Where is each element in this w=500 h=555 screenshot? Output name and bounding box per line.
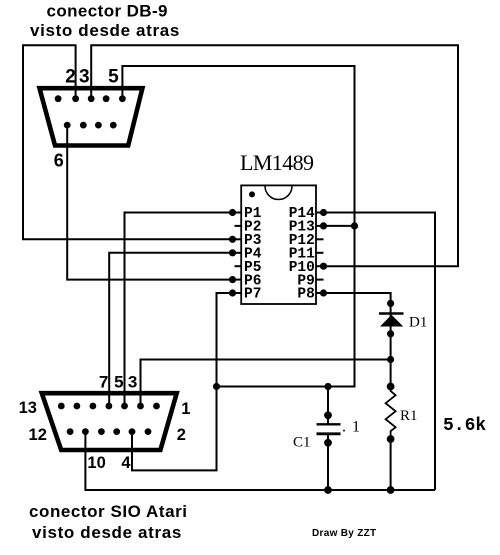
- diode D1 branch vertical: [390, 314, 392, 390]
- capacitor C1 plates: [317, 424, 341, 434]
- svg-text:C1: C1: [293, 435, 311, 451]
- svg-text:10: 10: [87, 454, 105, 472]
- svg-text:6: 6: [54, 151, 64, 171]
- title SIO connector label: [29, 502, 188, 542]
- svg-text:7: 7: [99, 373, 108, 392]
- svg-text:2: 2: [65, 67, 76, 88]
- wire DB9-5 to P13/C1 node: [122, 66, 354, 387]
- diode node dots: [387, 300, 394, 363]
- wire P14 to rail: [324, 213, 436, 491]
- wire DB9-3 to P10: [91, 45, 458, 266]
- svg-text:2: 2: [177, 426, 186, 444]
- svg-text:visto desde atras: visto desde atras: [32, 523, 182, 542]
- IC notch: [265, 186, 292, 200]
- IC right pin dots: [320, 209, 327, 297]
- DB-9 pins row2: [64, 122, 117, 129]
- SIO pins row1: [58, 403, 160, 410]
- svg-text:conector DB-9: conector DB-9: [47, 2, 168, 21]
- svg-text:D1: D1: [409, 315, 427, 331]
- junction node P7/C1: [213, 383, 220, 390]
- resistor R1 zigzag: [386, 387, 396, 440]
- connector J2 SIO body: [42, 393, 177, 450]
- svg-text:5: 5: [108, 67, 119, 88]
- IC right pin stubs: [316, 213, 324, 294]
- junction P13 node: [351, 222, 358, 229]
- wire R1 to rail: [390, 439, 392, 490]
- capacitor C1 branch top: [327, 387, 329, 425]
- DB-9 pins row1: [55, 95, 126, 102]
- wire SIO-10 ground rail: [85, 432, 435, 490]
- rail dot at R1: [387, 486, 395, 494]
- capacitor C1 branch bottom: [327, 434, 329, 490]
- svg-text:P7: P7: [244, 287, 261, 303]
- wire DB9-6 to P6: [67, 125, 232, 280]
- svg-text:Draw By ZZT: Draw By ZZT: [312, 528, 376, 539]
- svg-text:12: 12: [29, 426, 47, 444]
- svg-text:5.6k: 5.6k: [443, 416, 486, 436]
- wire P1 to SIO-5: [125, 213, 233, 407]
- wire P13 stub link: [324, 225, 355, 227]
- SIO pins row2: [67, 428, 152, 435]
- title DB-9 connector label: [30, 2, 180, 41]
- svg-text:LM1489: LM1489: [240, 150, 314, 175]
- svg-text:visto desde atras: visto desde atras: [30, 21, 180, 40]
- IC left pin dots: [229, 209, 236, 297]
- C1 node dots: [324, 383, 332, 494]
- svg-text:P8: P8: [297, 287, 314, 303]
- svg-text:R1: R1: [400, 408, 418, 424]
- svg-text:.1: .1: [342, 419, 366, 436]
- svg-text:5: 5: [114, 373, 123, 392]
- IC pin labels left: [244, 206, 262, 303]
- diode D1 triangle: [380, 315, 403, 327]
- resistor R1 terminal dots: [387, 383, 395, 443]
- diode D1 cathode bar: [379, 312, 404, 315]
- wire P4 to SIO-7: [109, 253, 232, 406]
- connector J1 DB-9 body: [40, 88, 143, 145]
- svg-text:1: 1: [181, 400, 190, 418]
- IC U1 body: [241, 185, 316, 304]
- IC left pin stubs: [233, 213, 242, 294]
- IC pin labels right: [289, 206, 315, 303]
- wire SIO-3 to diode node: [141, 360, 391, 407]
- wire P7 to SIO-4: [132, 293, 233, 470]
- IC index dot: [249, 191, 255, 197]
- svg-text:conector SIO Atari: conector SIO Atari: [29, 502, 188, 521]
- svg-text:4: 4: [121, 454, 131, 472]
- wire DB9-2 to P3: [23, 45, 233, 239]
- svg-text:13: 13: [19, 399, 37, 417]
- wire P8 to D1: [324, 293, 391, 314]
- svg-text:3: 3: [128, 373, 137, 392]
- svg-text:3: 3: [79, 67, 90, 88]
